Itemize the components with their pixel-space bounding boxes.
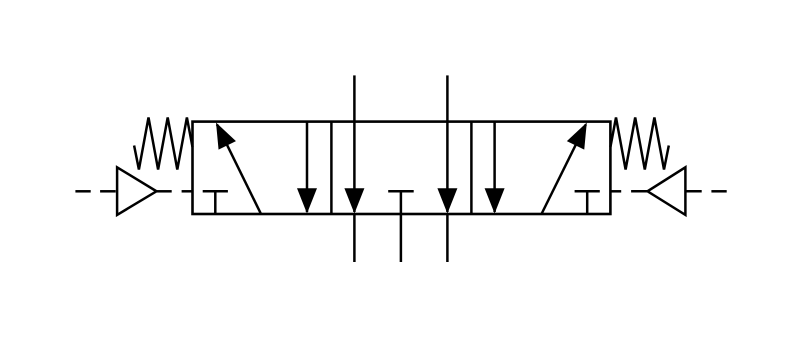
right pilot triangle <box>648 167 686 215</box>
return spring right <box>610 118 668 170</box>
right box: vertical flow arrow shaft <box>493 122 496 212</box>
left pilot triangle <box>117 167 156 215</box>
left box: diagonal flow arrow shaft <box>217 125 261 215</box>
right box: vertical flow arrowhead <box>485 188 505 213</box>
right pilot to valve dashed connection <box>610 190 647 193</box>
port line bottom-left (port 5) <box>353 214 356 262</box>
middle box: left vertical flow arrow shaft <box>353 122 356 212</box>
position divider right <box>470 122 473 214</box>
middle box: left vertical flow arrowhead <box>344 188 364 213</box>
middle box: blocked port T symbol <box>388 191 414 214</box>
position divider left <box>330 122 333 214</box>
right box: blocked port T symbol <box>575 191 600 214</box>
middle box: right vertical flow arrow shaft <box>446 122 449 212</box>
left box: diagonal flow arrowhead <box>216 123 236 150</box>
right box: diagonal flow arrow shaft <box>542 125 586 215</box>
left pilot dashed line <box>75 190 115 193</box>
left pilot to valve dashed connection <box>157 190 193 193</box>
port line bottom-center (port 1) <box>400 214 403 262</box>
left box: vertical flow arrow shaft <box>306 122 309 212</box>
port line bottom-right (port 3) <box>446 214 449 262</box>
port line top-left (port 4) <box>353 75 356 121</box>
left box: vertical flow arrowhead <box>297 188 317 213</box>
port line top-right (port 2) <box>446 75 449 121</box>
left box: blocked port T symbol <box>203 191 228 214</box>
right pilot dashed line <box>685 190 726 193</box>
middle box: right vertical flow arrowhead <box>437 188 457 213</box>
right box: diagonal flow arrowhead <box>567 123 587 150</box>
return spring left <box>134 118 192 170</box>
valve body outline (5/3 valve V1) <box>193 122 611 214</box>
